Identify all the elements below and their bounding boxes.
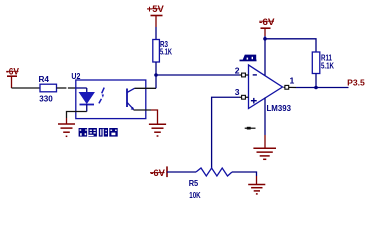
svg-text:1: 1 <box>290 75 295 85</box>
op-amp AR LM393 <box>249 65 283 109</box>
wire -6V to R4 <box>12 87 41 89</box>
label guangdian ouhe (Chinese) <box>79 128 118 137</box>
svg-text:U2: U2 <box>71 72 81 81</box>
ground R5 <box>248 185 265 194</box>
part marker arrow <box>245 127 256 130</box>
output wire <box>296 87 349 89</box>
collector wire to R3 node <box>135 87 157 89</box>
svg-text:LM393: LM393 <box>267 104 292 113</box>
wire -6V down to op-amp V+ <box>264 36 266 75</box>
wire pin3 to pot wiper <box>212 97 240 168</box>
svg-text:R4: R4 <box>39 75 50 84</box>
potentiometer R5 <box>196 168 232 176</box>
resistor R11 <box>312 52 320 74</box>
pin 1 arrow <box>284 86 297 88</box>
svg-text:P3.5: P3.5 <box>347 77 365 87</box>
emitter wire to ground <box>134 109 152 111</box>
svg-text:-6V: -6V <box>259 17 275 27</box>
wire node to pin2 <box>156 74 240 76</box>
LED of U2 <box>80 93 95 104</box>
power port -6V top-left <box>6 67 19 89</box>
wire R3 to node <box>155 62 157 75</box>
label AR <box>240 55 257 62</box>
LED cathode wire <box>86 105 88 112</box>
node junction <box>154 73 158 77</box>
svg-text:3: 3 <box>235 87 240 97</box>
ground under LED <box>58 124 75 136</box>
ground under phototransistor <box>149 124 166 136</box>
phototransistor of U2 <box>127 88 135 110</box>
node junction <box>263 37 267 41</box>
optocoupler U2 box <box>76 80 146 119</box>
node junction <box>314 86 318 90</box>
wire +5V to R3 <box>155 27 157 40</box>
svg-text:2: 2 <box>235 65 240 75</box>
wire rail to R11 <box>265 39 316 52</box>
pin 3 arrow <box>240 96 249 98</box>
wire op-amp V- to ground <box>264 98 266 135</box>
svg-text:5.1K: 5.1K <box>160 48 172 57</box>
resistor R3 <box>153 40 160 63</box>
svg-text:10K: 10K <box>189 191 201 200</box>
wire R5 to ground <box>232 172 257 176</box>
svg-text:330: 330 <box>39 95 53 104</box>
light arrow <box>99 88 104 104</box>
resistor R4 <box>40 84 57 92</box>
pin 2 arrow <box>240 74 249 76</box>
ground op-amp <box>253 148 276 159</box>
power port -6V bottom <box>150 166 167 178</box>
wire R4 to U2 <box>57 87 67 89</box>
power port +5V <box>147 4 164 27</box>
LED lead <box>86 88 88 93</box>
svg-text:5.1K: 5.1K <box>321 62 334 71</box>
wire R11 to output <box>315 74 317 88</box>
wire -6V to R5 <box>167 171 196 173</box>
svg-text:R5: R5 <box>189 179 199 188</box>
power port -6V op-amp <box>259 17 275 36</box>
LED cathode bar <box>80 104 95 106</box>
